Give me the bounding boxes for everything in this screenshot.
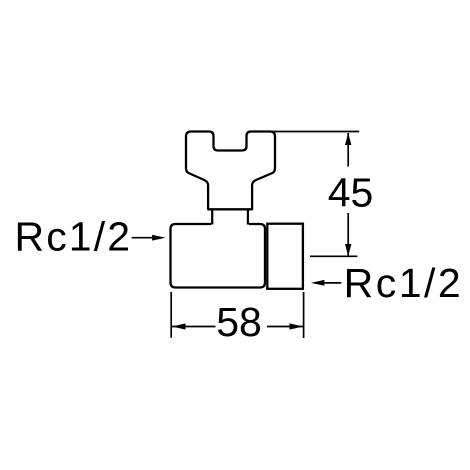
right fitting nut	[267, 224, 303, 289]
svg-text:58: 58	[216, 299, 262, 345]
right Rc1/2 arrow line	[323, 282, 341, 284]
dim 58 horizontal line	[172, 326, 303, 328]
dim 45 text background	[328, 167, 374, 214]
dim 58 left extension line	[170, 292, 172, 338]
dim 58 right extension line	[303, 292, 305, 338]
dim 45 vertical line	[347, 133, 349, 256]
left Rc1/2 arrowhead	[152, 235, 166, 241]
svg-text:45: 45	[328, 170, 374, 216]
dim 58 right arrowhead	[290, 323, 304, 329]
stem right line	[247, 209, 249, 224]
svg-text:Rc1/2: Rc1/2	[15, 214, 133, 260]
dim 58 left arrowhead	[172, 323, 186, 329]
valve body	[171, 224, 266, 288]
dim 45 top extension line	[272, 131, 359, 133]
dim 45 bottom arrowhead	[345, 244, 351, 256]
dim 58 text background	[216, 300, 268, 340]
dim 45 bottom extension line	[310, 255, 357, 257]
stem left line	[211, 209, 213, 224]
butterfly handle	[186, 132, 275, 210]
dim 45 top arrowhead	[345, 133, 351, 145]
svg-text:Rc1/2: Rc1/2	[344, 260, 464, 306]
left Rc1/2 arrow line	[132, 237, 153, 239]
right Rc1/2 arrowhead	[311, 280, 325, 286]
